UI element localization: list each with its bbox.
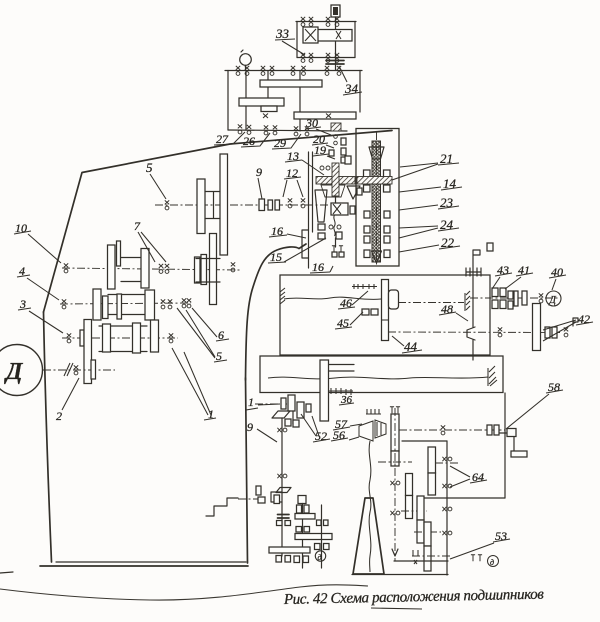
svg-text:Д: Д <box>4 359 24 385</box>
label 21 leader a <box>400 163 438 167</box>
gear bar upper <box>260 80 322 87</box>
motor shaft row y=370 centerline <box>43 369 115 371</box>
label 7 leader b <box>141 232 166 262</box>
horizontal gear bar 2 <box>295 534 332 540</box>
label 52 leader b <box>312 416 319 436</box>
label 20 leader <box>326 145 334 148</box>
gear 52b <box>297 402 304 418</box>
spindle hatched quill <box>372 141 381 262</box>
inner wall left b <box>312 152 314 232</box>
bearing cluster right b <box>494 425 499 435</box>
spindle bearing block left 4 <box>364 226 370 233</box>
gearbox bottom rail <box>228 130 347 131</box>
knee box bottom edge <box>420 497 505 499</box>
bearing <box>301 17 305 27</box>
knob on vertical shaft <box>331 5 340 17</box>
freehand ground wavy line <box>0 585 368 600</box>
label 14 underline <box>441 187 462 190</box>
label 2 leader <box>62 378 79 410</box>
spindle bearing block right 1 <box>384 170 391 177</box>
label 16 lower underline <box>310 272 330 273</box>
marks shaft3 <box>317 520 322 526</box>
label 24 leader a <box>399 226 438 228</box>
label 48 underline <box>439 312 456 315</box>
bearing <box>539 293 543 303</box>
side block on feed gear <box>389 290 399 309</box>
bearing <box>301 66 305 76</box>
crank foot <box>511 451 527 457</box>
label 12 leader a <box>283 180 287 197</box>
svg-text:7: 7 <box>134 219 141 233</box>
label 12 underline <box>284 177 301 179</box>
label 46 leader <box>352 291 368 305</box>
label 9 right leader <box>257 429 277 442</box>
spindle top cone <box>369 147 384 159</box>
label 20 underline <box>312 143 328 145</box>
bearing <box>182 298 186 308</box>
mesh line 3 <box>401 510 427 512</box>
gear row2 c <box>145 290 155 320</box>
knee box right edge <box>504 393 506 498</box>
label 6 underline <box>216 339 229 341</box>
bearing <box>442 457 452 461</box>
bearing <box>159 264 163 274</box>
spindle bearing block left 6 <box>364 250 370 258</box>
label 46 underline <box>338 307 355 309</box>
clutch parts c <box>500 288 506 297</box>
machine body top contour <box>44 131 393 313</box>
bearing <box>169 333 173 343</box>
bearing marks row top <box>352 284 377 289</box>
label 22 leader <box>399 245 439 252</box>
label 16 lower bracket <box>330 266 333 272</box>
spindle bearing block right 4 <box>384 226 390 233</box>
clutch fork bracket <box>467 327 475 340</box>
coupling rect motor <box>91 360 96 379</box>
label 33 leader <box>282 41 305 55</box>
spindle bearing block left 2 <box>364 185 371 192</box>
label 64 leader a <box>450 466 470 477</box>
marks on shaft2 <box>297 505 302 513</box>
label 42 underline <box>576 322 593 325</box>
svg-text:5: 5 <box>146 160 153 175</box>
crank handle <box>497 433 514 452</box>
step rect row3 <box>80 330 84 346</box>
clutch parts f <box>508 301 513 309</box>
flag top <box>473 250 480 259</box>
vertical feed shaft left <box>281 418 283 556</box>
small mark right of sleeve <box>345 156 351 164</box>
circled д bottom-left <box>315 551 325 561</box>
coupling bracket between gears <box>205 192 220 219</box>
label 53 underline <box>493 539 510 542</box>
bottom marks row b <box>285 556 291 563</box>
label 16 upper leader <box>287 234 306 238</box>
bottom cascade rail <box>394 560 448 562</box>
hook bracket mid <box>271 492 282 502</box>
face gear hatched bar left <box>316 177 355 185</box>
vertical link <box>292 411 294 424</box>
label 43 leader <box>492 277 500 289</box>
base left mark <box>0 572 13 573</box>
bearing pair under clutch 2 <box>339 246 343 252</box>
vertical shaft hatched sleeve <box>332 163 339 196</box>
small circle mark b <box>326 166 330 170</box>
bearing <box>442 484 452 488</box>
svg-text:Рис. 42 Схема расположения под: Рис. 42 Схема расположения подшипников <box>283 587 545 608</box>
gear G3 lower <box>406 496 413 519</box>
gear row3 a <box>103 324 111 352</box>
bearing <box>273 125 277 134</box>
label 15 underline <box>268 262 286 263</box>
marks shaft3 c <box>315 544 321 550</box>
elevating screw wavy <box>369 441 371 572</box>
label 12 leader b <box>297 180 303 197</box>
shaft I row y=268 centerline <box>62 268 240 270</box>
tall gear D spans rows 3-4 <box>84 320 92 384</box>
spindle centerline <box>376 132 378 266</box>
label 1 left leader b <box>184 352 211 415</box>
bearing <box>291 66 295 76</box>
bearing <box>165 264 169 274</box>
tall feed gear <box>382 280 389 341</box>
marks mid <box>296 527 302 533</box>
label 29 leader <box>272 134 301 149</box>
release lever zigzag <box>206 498 238 516</box>
frame line top <box>402 440 447 442</box>
gear row1 b <box>141 249 149 289</box>
label 23 underline <box>438 206 459 209</box>
shaft to crank horizontal <box>399 429 505 431</box>
label 41 leader <box>505 277 521 289</box>
clutch hatched block on shaft XII <box>331 123 341 131</box>
coupling piece a <box>268 200 273 210</box>
bearing <box>325 66 329 76</box>
small box on shaft2 top <box>298 496 306 504</box>
handwheel circle <box>240 54 252 66</box>
bearing <box>564 327 568 337</box>
gear G2 lower <box>428 473 436 495</box>
label 1 left leader a <box>172 348 208 415</box>
bearing <box>277 474 287 478</box>
gear bar lower <box>294 112 356 119</box>
feed cluster mark c <box>329 225 333 229</box>
bearing marks small <box>332 252 337 257</box>
clutch parts a <box>492 288 498 297</box>
gear row2 thin mid <box>117 294 122 319</box>
screw tower cone <box>353 498 384 574</box>
leadscrew wavy shaft <box>284 297 381 299</box>
bearing small pair2 <box>552 327 557 338</box>
bearing <box>335 53 339 63</box>
feed gear split <box>382 319 389 321</box>
face gear hatched bar right <box>357 177 392 185</box>
bearing <box>187 298 191 308</box>
clutch box with cross <box>331 203 348 215</box>
clutch parts e <box>508 291 513 299</box>
machine base line <box>40 565 248 567</box>
svg-text:33: 33 <box>275 26 290 41</box>
small flag square <box>487 243 493 251</box>
top rail <box>296 21 356 23</box>
shaft IV centerline <box>155 204 330 206</box>
gear G2 upper <box>428 447 436 473</box>
right shaft upper centerline <box>470 297 560 299</box>
bearing <box>245 66 249 76</box>
small mark right of clutch <box>350 206 355 214</box>
gear bar mid <box>239 98 284 106</box>
label 30 leader <box>316 129 331 135</box>
drum row1 <box>121 258 142 282</box>
crank bearing <box>507 429 516 437</box>
machine body left edge <box>44 312 52 562</box>
bevel hatched wedge <box>321 185 345 197</box>
marks below b <box>293 420 299 427</box>
circled д bottom-right <box>488 556 499 567</box>
small marks right column <box>341 138 346 145</box>
gear bar 33 <box>306 30 352 42</box>
wall hatch <box>465 291 470 311</box>
svg-text:2: 2 <box>56 409 62 423</box>
small gear <box>514 291 518 306</box>
label 5 lower underline <box>214 360 227 362</box>
clutch parts b <box>492 300 498 309</box>
shaft III row y=338 centerline <box>62 337 178 339</box>
gear G1 lower <box>391 451 399 466</box>
svg-text:Д: Д <box>549 295 557 306</box>
body cutout curve around spindle <box>246 244 307 380</box>
label 44 leader <box>392 336 404 346</box>
label 33 underline <box>275 39 295 40</box>
circled Д right <box>546 291 561 306</box>
bearing <box>390 511 400 515</box>
svg-text:1: 1 <box>248 395 254 409</box>
roof bracket <box>272 411 290 418</box>
label 10 underline <box>14 231 31 234</box>
label 7 leader a <box>138 232 155 262</box>
label 5 lower leader a <box>186 310 215 357</box>
label 24 leader b <box>399 228 438 238</box>
bearing <box>390 481 400 485</box>
gear row3 c <box>151 320 159 352</box>
bearing small pair <box>545 327 550 338</box>
arrow on shaft A <box>392 549 398 556</box>
label 57 underline <box>333 427 350 430</box>
shaft II row y=304 centerline <box>60 303 191 304</box>
bottom marks row a <box>276 556 282 563</box>
drum row2 <box>108 295 146 315</box>
bearing <box>277 428 287 432</box>
label 45 underline <box>335 327 352 329</box>
tick pair bottom <box>471 555 475 561</box>
feed cluster mark b <box>318 233 325 239</box>
knob fill <box>333 7 338 15</box>
label 30 underline <box>305 127 321 129</box>
label 52 leader a <box>301 414 316 436</box>
small marks left <box>329 150 334 156</box>
bearing top of G1 b <box>396 407 400 413</box>
bearing <box>165 200 169 210</box>
marks mid b <box>304 527 310 533</box>
small marks column on shaft XII <box>334 135 338 139</box>
label 40 underline <box>549 275 566 278</box>
label 1 left underline <box>204 418 216 420</box>
bearing <box>442 531 452 535</box>
machine body right edge (column) <box>246 378 248 563</box>
label 48 leader <box>456 313 468 321</box>
vertical shaft continue <box>335 196 337 247</box>
bearing <box>247 125 251 134</box>
spindle bearing block right 5 <box>384 236 390 243</box>
label 45 leader <box>350 312 363 325</box>
inner wall step <box>302 230 309 258</box>
bottom marks row c <box>294 556 300 563</box>
label 6 leader <box>192 308 217 337</box>
gear bar mark <box>336 31 341 39</box>
drum row3 <box>99 326 147 352</box>
label 19 leader <box>327 156 335 159</box>
bearing <box>305 126 309 135</box>
label 34 underline <box>343 92 362 95</box>
shaft IX vertical <box>245 71 247 131</box>
clutch parts d <box>500 300 506 309</box>
label 27 leader <box>214 132 245 145</box>
label 23 leader <box>399 205 438 210</box>
bearing <box>261 66 265 76</box>
label 22 underline <box>439 246 460 249</box>
bearing <box>74 365 78 375</box>
shaft A vertical <box>394 408 396 561</box>
gear row1 right cluster a <box>195 257 201 283</box>
inner wall left <box>308 152 310 268</box>
bevel gear left cone <box>359 421 373 441</box>
small latch parts <box>256 486 261 495</box>
small marks right column 2 <box>341 148 346 155</box>
label 21 underline <box>438 163 459 165</box>
bearing <box>301 53 305 63</box>
table box outline <box>260 356 503 393</box>
right wall <box>354 22 356 58</box>
tall gear B <box>197 179 205 234</box>
gearbox left wall <box>227 71 229 131</box>
label 19 underline <box>313 154 329 156</box>
bearing <box>64 263 68 273</box>
small circle mark <box>320 166 324 170</box>
electric motor circle <box>0 345 43 396</box>
table leadscrew wavy <box>268 377 488 379</box>
apron gear tall <box>320 360 329 421</box>
label 4 underline <box>17 275 30 277</box>
small marks right column 3 <box>341 157 346 163</box>
label 58 leader <box>506 394 549 429</box>
gear row1 a <box>108 245 116 289</box>
spindle bearing block right 2 <box>384 185 391 192</box>
bearing top of G1 <box>390 407 394 413</box>
main top rail <box>225 70 362 72</box>
feed cluster mark d <box>337 225 341 229</box>
label 41 underline <box>516 273 533 276</box>
bearing <box>236 66 240 76</box>
feed cluster mark e <box>336 232 342 239</box>
bottom marks row d <box>303 556 309 563</box>
lower feed shaft centerline <box>388 331 560 334</box>
spindle bearing block right 6 <box>384 250 390 258</box>
cross in clutch <box>305 29 316 41</box>
label 42 leader a <box>543 320 576 330</box>
mesh line 2 <box>435 462 458 464</box>
shaft X vertical <box>267 71 269 112</box>
bearing pair under clutch <box>332 246 336 252</box>
label 3 underline <box>18 308 31 310</box>
gear bar mid step <box>261 106 277 112</box>
bevel triangle <box>347 186 360 199</box>
label 64 leader b <box>450 479 470 487</box>
label 15 leader <box>284 238 326 262</box>
bearing <box>264 125 268 134</box>
mesh line 5 <box>412 555 452 557</box>
label 14 leader <box>399 187 441 192</box>
gear G4 upper <box>417 496 424 520</box>
tall gear C <box>210 234 217 305</box>
feed shaft centerline <box>398 302 464 304</box>
machine base second line <box>56 561 246 563</box>
bearing <box>288 198 292 208</box>
bearing <box>498 327 502 337</box>
spindle bearing block left 5 <box>364 236 370 243</box>
tall gear right <box>533 304 541 351</box>
label 13 underline <box>285 160 302 162</box>
bearing <box>67 333 71 343</box>
svg-text:9: 9 <box>247 420 253 434</box>
spindle bearing block left 1 <box>364 170 371 177</box>
bearing <box>309 17 313 27</box>
small marks column <box>334 141 338 145</box>
bearing col <box>281 398 286 409</box>
mesh line 4 <box>414 531 441 533</box>
left wall <box>296 22 298 58</box>
bearing <box>270 66 274 76</box>
shaft XI vertical <box>299 71 301 132</box>
bearing rect pair <box>362 309 369 315</box>
vertical shaft bl2 <box>302 504 304 569</box>
bottom rail <box>297 57 355 59</box>
horizontal gear bar 3 <box>269 547 310 553</box>
label 10 leader <box>28 234 61 263</box>
bearing pair below coupling b <box>285 521 291 526</box>
bearing box <box>466 268 481 276</box>
gear 52a <box>288 395 295 411</box>
svg-text:9: 9 <box>256 165 262 179</box>
clutch cross <box>333 204 341 214</box>
leadscrew hatch left <box>280 288 285 304</box>
coupling mid <box>522 291 527 305</box>
bearing <box>441 425 445 435</box>
gear row2 b pair <box>103 296 109 319</box>
label 26 leader <box>241 133 270 147</box>
label 9 mid leader <box>258 178 262 199</box>
mesh line 1 <box>378 461 412 463</box>
apron bars <box>329 365 354 372</box>
clutch box with cross <box>303 27 318 43</box>
bearing <box>294 126 298 135</box>
label 16 upper underline <box>269 235 287 237</box>
bearing <box>335 17 339 27</box>
marks shaft3 d <box>324 544 330 550</box>
label 1 right underline <box>246 408 258 410</box>
dashed link <box>238 498 262 500</box>
gear G3 upper <box>406 474 413 496</box>
cone pulley trapezoid <box>315 190 327 222</box>
